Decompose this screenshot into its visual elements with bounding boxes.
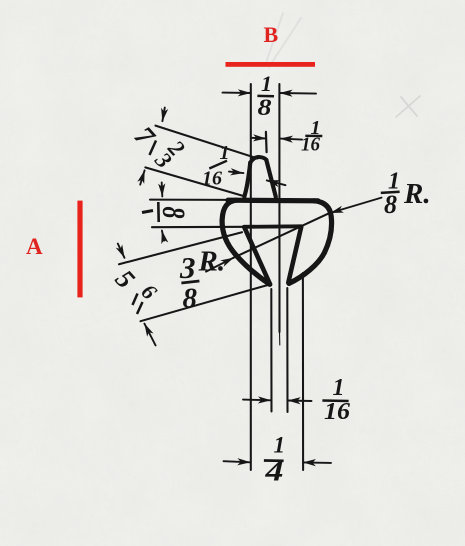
tick for top 1/16 — [265, 132, 268, 152]
svg-text:R.: R. — [403, 178, 431, 210]
extension line from left leg tip — [270, 289, 272, 412]
arrow bottom 1/16 right — [288, 400, 312, 403]
label 7/32 rotated — [128, 121, 190, 173]
notch top line — [244, 224, 302, 228]
svg-text:1: 1 — [333, 375, 345, 401]
red line B — [226, 62, 316, 67]
arrow 1/4 right — [303, 461, 331, 464]
dimension line A for 5/16 — [119, 232, 242, 264]
notch-top horizontal extension line y=227 — [152, 226, 246, 228]
svg-text:3: 3 — [179, 250, 196, 285]
svg-text:B: B — [264, 22, 279, 47]
svg-text:8: 8 — [183, 283, 198, 315]
svg-text:8: 8 — [384, 190, 397, 219]
dimension line B for 5/16 — [141, 285, 270, 322]
label 5/16 rotated — [110, 264, 162, 314]
extension line outer right (x=303) — [302, 273, 304, 470]
svg-text:8: 8 — [155, 207, 190, 219]
arrow 1/8 R leader — [330, 198, 381, 213]
svg-text:8: 8 — [258, 95, 273, 120]
body left side curve — [222, 200, 270, 284]
arrow top 1/16 left — [252, 137, 267, 140]
arrow bottom 1/16 left — [243, 399, 271, 402]
body top line — [228, 198, 318, 204]
arrow fin 1/16 leader — [229, 172, 243, 174]
svg-text:A: A — [26, 234, 43, 259]
arrow 5/16 lower — [144, 324, 155, 346]
arrows — [118, 93, 382, 463]
arrow top 1/8 right — [280, 92, 316, 95]
arrow 7/32 lower — [140, 170, 144, 184]
svg-text:16: 16 — [301, 134, 320, 156]
svg-text:1: 1 — [274, 433, 286, 458]
notch right wall — [288, 227, 301, 283]
label 1/8 rotated left — [142, 202, 190, 222]
svg-text:1: 1 — [261, 71, 272, 96]
arrow 1/8 vertical down — [161, 182, 164, 196]
slot-center line tapered end — [279, 332, 281, 345]
dimension line L1 for 7/32 — [156, 126, 258, 159]
arrow 7/32 upper — [162, 108, 164, 122]
arrow top 1/8 left — [223, 92, 251, 94]
body right side curve — [289, 201, 332, 284]
extension line slot-center (x=279) — [278, 84, 280, 332]
arrow 1/4 left — [224, 461, 251, 462]
top horizontal extension line y=200 — [150, 199, 232, 201]
faint pencil smudge marks near B — [266, 13, 301, 67]
svg-text:4: 4 — [264, 456, 283, 488]
arrow top 1/16 right — [280, 139, 302, 140]
svg-text:16: 16 — [324, 399, 350, 425]
red line A — [77, 201, 82, 298]
profile body outline — [222, 157, 331, 284]
svg-text:R.: R. — [198, 246, 226, 278]
extension line from right leg tip — [286, 288, 288, 412]
arrow 5/16 upper — [118, 244, 125, 258]
fin right edge — [266, 160, 276, 197]
extension line left (x=251) top to bottom — [250, 84, 252, 470]
fin top arc — [250, 157, 266, 162]
arrow 1/8 vertical up — [162, 231, 164, 241]
dimension line L2 for 7/32 — [145, 167, 245, 196]
arrow 3/8 R leader — [206, 258, 234, 272]
notch left wall — [244, 227, 269, 283]
faint pencil cross mark top-right — [396, 96, 420, 117]
svg-text:16: 16 — [202, 168, 222, 190]
arrow fin right edge — [267, 180, 286, 185]
interior diagonal radius line — [233, 212, 331, 258]
fin left edge — [244, 163, 250, 197]
